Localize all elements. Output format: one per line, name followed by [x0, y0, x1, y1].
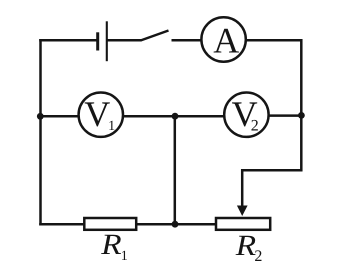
svg-text:R: R: [235, 230, 257, 262]
wire middle: V1 to V2: [123, 115, 226, 118]
resistor R1 body: [84, 218, 136, 230]
wire right vertical: [300, 39, 303, 171]
wire middle vertical (between middle dots): [174, 116, 177, 224]
voltmeter V1 circle: [79, 93, 123, 137]
wire middle: left dot to V1: [41, 115, 80, 118]
wire top: switch contact to ammeter: [172, 39, 202, 42]
ammeter A circle: [201, 17, 245, 61]
wire top: battery to switch pivot: [107, 39, 142, 42]
switch S blade: [141, 31, 169, 41]
wire top: corner to battery: [39, 39, 97, 42]
wire bottom: left corner to R1: [39, 223, 84, 226]
svg-text:1: 1: [108, 119, 115, 134]
wire left vertical: [39, 39, 42, 226]
svg-text:V: V: [84, 94, 110, 134]
battery cell: short thick plate: [96, 32, 99, 50]
resistor R2 body: [216, 218, 270, 230]
junction node: left-middle: [37, 113, 44, 120]
junction node: right-middle: [298, 112, 305, 119]
svg-text:2: 2: [254, 248, 262, 265]
voltmeter V2 circle: [224, 93, 268, 137]
wire top: ammeter to right corner: [246, 39, 303, 42]
svg-text:1: 1: [121, 249, 128, 264]
wire bottom: R1 to R2: [136, 223, 216, 226]
junction node: center-bottom: [172, 221, 179, 228]
wiper jog horizontal: [242, 169, 302, 172]
battery cell: long thin plate: [106, 21, 108, 61]
wiper arrowhead: [237, 206, 248, 217]
svg-text:2: 2: [251, 117, 259, 134]
wiper shaft vertical: [241, 169, 244, 208]
svg-text:R: R: [100, 229, 122, 261]
wire middle: V2 to right dot: [268, 114, 301, 117]
junction node: center-middle: [172, 113, 179, 120]
svg-text:A: A: [213, 20, 239, 60]
